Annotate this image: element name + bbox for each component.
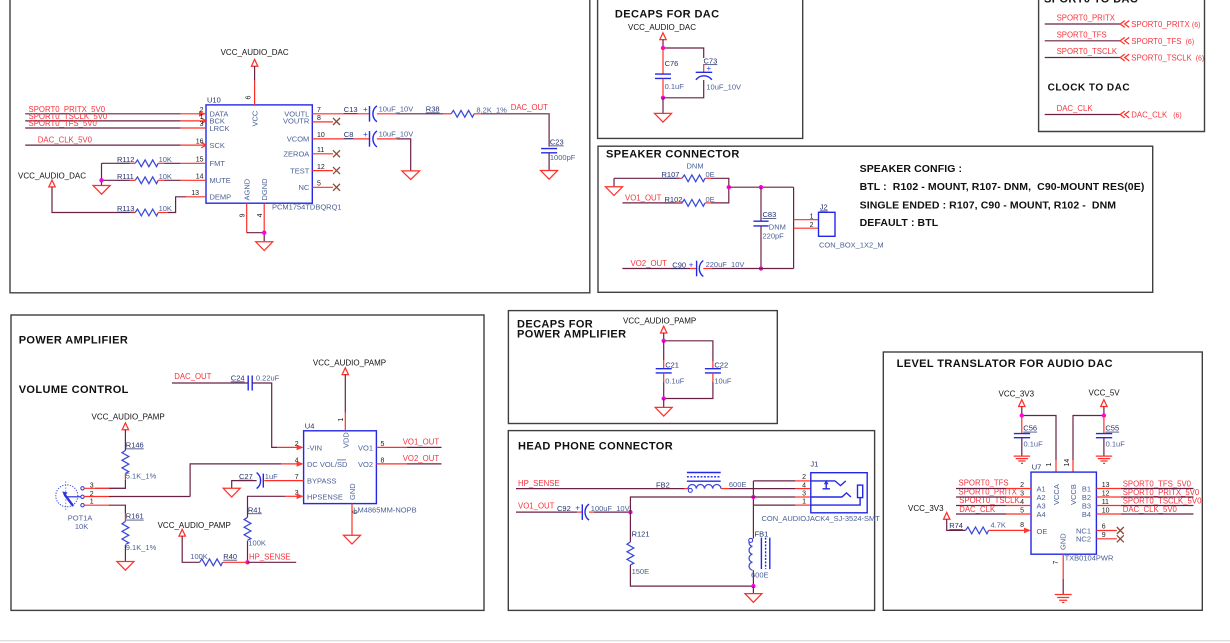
svg-text:J1: J1 [810, 460, 818, 469]
svg-text:MUTE: MUTE [210, 176, 231, 185]
svg-text:C90: C90 [672, 260, 686, 269]
svg-text:4: 4 [802, 482, 806, 489]
svg-text:2: 2 [802, 474, 806, 481]
svg-text:TXB0104PWR: TXB0104PWR [1065, 554, 1114, 563]
svg-text:600E: 600E [751, 571, 769, 580]
svg-text:C8: C8 [344, 130, 354, 139]
svg-text:5: 5 [317, 181, 321, 188]
svg-text:6: 6 [246, 96, 253, 100]
svg-text:10: 10 [1102, 508, 1110, 515]
svg-text:R121: R121 [632, 530, 650, 539]
svg-text:C24: C24 [231, 374, 245, 383]
svg-text:R113: R113 [117, 204, 134, 213]
svg-text:VO2_OUT: VO2_OUT [631, 259, 668, 268]
svg-text:POWER AMPLIFIER: POWER AMPLIFIER [517, 329, 626, 341]
svg-text:(6): (6) [1192, 22, 1201, 29]
svg-text:HPSENSE: HPSENSE [307, 492, 343, 501]
svg-text:R112: R112 [117, 155, 134, 164]
svg-text:-VIN: -VIN [307, 443, 322, 452]
svg-text:+: + [363, 130, 368, 139]
svg-text:10K: 10K [75, 522, 88, 531]
svg-text:C22: C22 [714, 360, 728, 369]
svg-text:OE: OE [1037, 527, 1048, 536]
svg-text:HP_SENSE: HP_SENSE [518, 479, 560, 488]
svg-text:SPORT0_PRITX: SPORT0_PRITX [1131, 20, 1190, 29]
svg-text:100K: 100K [248, 538, 266, 547]
svg-text:FB2: FB2 [656, 481, 670, 490]
svg-text:1: 1 [802, 498, 806, 505]
svg-text:R38: R38 [426, 105, 440, 114]
svg-text:10K: 10K [159, 155, 172, 164]
svg-text:6: 6 [1102, 524, 1106, 531]
svg-text:VCC_3V3: VCC_3V3 [999, 390, 1035, 399]
svg-text:R102: R102 [665, 195, 683, 204]
svg-text:4.7K: 4.7K [991, 521, 1006, 530]
svg-text:LRCK: LRCK [210, 124, 230, 133]
svg-text:J2: J2 [820, 203, 828, 212]
svg-text:VCC_AUDIO_PAMP: VCC_AUDIO_PAMP [313, 359, 386, 368]
svg-text:VCC_3V3: VCC_3V3 [908, 504, 944, 513]
svg-text:9: 9 [240, 213, 247, 217]
svg-text:0E: 0E [706, 170, 715, 179]
svg-text:R146: R146 [126, 441, 144, 450]
svg-text:8: 8 [317, 115, 321, 122]
svg-text:0.22uF: 0.22uF [256, 374, 280, 383]
svg-text:VCC_AUDIO_PAMP: VCC_AUDIO_PAMP [623, 317, 696, 326]
svg-text:2: 2 [200, 107, 204, 114]
svg-text:CON_AUDIOJACK4_SJ-3524-SMT: CON_AUDIOJACK4_SJ-3524-SMT [762, 514, 881, 523]
svg-text:DAC_OUT: DAC_OUT [511, 103, 548, 112]
svg-text:C55: C55 [1105, 424, 1119, 433]
svg-text:+: + [575, 504, 580, 513]
svg-text:R40: R40 [223, 552, 237, 561]
svg-text:DNM: DNM [769, 223, 786, 232]
svg-text:10uF_10V: 10uF_10V [706, 83, 741, 92]
svg-text:5.1K_1%: 5.1K_1% [126, 471, 157, 480]
svg-text:U10: U10 [207, 96, 221, 105]
svg-text:1: 1 [338, 418, 345, 422]
svg-text:SPEAKER CONFIG :: SPEAKER CONFIG : [860, 163, 963, 175]
svg-text:GND: GND [1059, 533, 1068, 550]
svg-text:R107: R107 [662, 170, 680, 179]
svg-text:CON_BOX_1X2_M: CON_BOX_1X2_M [819, 241, 884, 250]
svg-text:10K: 10K [159, 204, 172, 213]
svg-text:VO2_OUT: VO2_OUT [403, 454, 440, 463]
svg-text:LEVEL TRANSLATOR FOR AUDIO DAC: LEVEL TRANSLATOR FOR AUDIO DAC [897, 358, 1113, 370]
svg-text:B4: B4 [1082, 510, 1091, 519]
svg-text:0.1uF: 0.1uF [665, 82, 685, 91]
svg-text:4: 4 [1020, 499, 1024, 506]
svg-text:HP_SENSE: HP_SENSE [249, 552, 291, 561]
svg-text:VCC: VCC [250, 110, 259, 126]
svg-text:VCC_AUDIO_PAMP: VCC_AUDIO_PAMP [158, 521, 231, 530]
svg-text:TEST: TEST [290, 166, 310, 175]
svg-text:C13: C13 [344, 105, 358, 114]
svg-text:FMT: FMT [210, 159, 226, 168]
svg-text:DC VOL/SD: DC VOL/SD [307, 460, 348, 469]
svg-text:150E: 150E [632, 567, 650, 576]
svg-text:SPEAKER CONNECTOR: SPEAKER CONNECTOR [606, 148, 740, 160]
svg-text:14: 14 [1064, 459, 1071, 467]
svg-text:4: 4 [257, 213, 264, 217]
svg-text:VO2: VO2 [358, 460, 373, 469]
svg-text:+: + [689, 260, 694, 269]
svg-text:U4: U4 [305, 422, 315, 431]
svg-text:3: 3 [1020, 491, 1024, 498]
svg-text:FB1: FB1 [755, 530, 769, 539]
svg-text:100K: 100K [190, 552, 208, 561]
svg-text:0.1uF: 0.1uF [1106, 440, 1126, 449]
svg-text:9: 9 [1102, 532, 1106, 539]
svg-text:PCM1754TDBQRQ1: PCM1754TDBQRQ1 [272, 202, 342, 211]
svg-text:POWER AMPLIFIER: POWER AMPLIFIER [19, 335, 128, 347]
svg-text:7: 7 [317, 107, 321, 114]
svg-text:DNM: DNM [687, 161, 704, 170]
svg-text:1: 1 [810, 214, 814, 221]
svg-text:8: 8 [1020, 522, 1024, 529]
svg-text:VOLUME CONTROL: VOLUME CONTROL [19, 384, 129, 396]
svg-text:15: 15 [196, 157, 204, 164]
svg-text:NC: NC [298, 183, 309, 192]
svg-text:C56: C56 [1023, 424, 1037, 433]
svg-text:(6): (6) [1173, 113, 1182, 120]
svg-text:SCK: SCK [210, 141, 225, 150]
svg-text:1: 1 [90, 499, 94, 506]
svg-text:DAC_CLK: DAC_CLK [1131, 111, 1168, 120]
svg-text:13: 13 [1102, 482, 1110, 489]
svg-text:10uF_10V: 10uF_10V [379, 105, 414, 114]
svg-text:2: 2 [810, 222, 814, 229]
svg-text:16: 16 [196, 138, 204, 145]
svg-text:10uF: 10uF [714, 377, 732, 386]
svg-text:C23: C23 [550, 138, 564, 147]
svg-text:0.1uF: 0.1uF [665, 377, 685, 386]
svg-text:5: 5 [381, 441, 385, 448]
svg-text:DAC_CLK: DAC_CLK [1057, 104, 1094, 113]
svg-text:VO1_OUT: VO1_OUT [403, 438, 440, 447]
svg-text:VO1: VO1 [358, 443, 373, 452]
svg-text:SPORT0_TFS: SPORT0_TFS [959, 479, 1009, 488]
svg-text:C92: C92 [557, 504, 571, 513]
svg-text:12: 12 [317, 164, 325, 171]
svg-text:SPORT0 TO DAC: SPORT0 TO DAC [1044, 0, 1138, 6]
svg-text:VCCB: VCCB [1069, 484, 1078, 505]
svg-text:VCC_AUDIO_DAC: VCC_AUDIO_DAC [628, 23, 696, 32]
svg-text:HEAD PHONE CONNECTOR: HEAD PHONE CONNECTOR [518, 441, 673, 453]
svg-text:DAC_CLK_5V0: DAC_CLK_5V0 [38, 135, 93, 144]
svg-text:LM4865MM-NOPB: LM4865MM-NOPB [353, 506, 416, 515]
svg-text:C27: C27 [239, 472, 253, 481]
svg-text:220uF_10V: 220uF_10V [706, 260, 745, 269]
svg-text:8.2K_1%: 8.2K_1% [476, 105, 507, 114]
svg-text:SPORT0_TSCLK: SPORT0_TSCLK [1057, 47, 1118, 56]
svg-text:BTL : R102 - MOUNT, R107- DNM: BTL : R102 - MOUNT, R107- DNM, C90-MOUNT… [860, 181, 1145, 193]
svg-text:(6): (6) [1196, 56, 1205, 63]
svg-text:10K: 10K [159, 172, 172, 181]
svg-text:DEFAULT : BTL: DEFAULT : BTL [860, 217, 939, 229]
svg-text:14: 14 [196, 174, 204, 181]
svg-text:0.1uF: 0.1uF [1024, 440, 1044, 449]
svg-text:11: 11 [1102, 499, 1109, 506]
svg-text:1000pF: 1000pF [550, 153, 576, 162]
svg-text:10uF_10V: 10uF_10V [379, 130, 414, 139]
svg-text:BYPASS: BYPASS [307, 476, 336, 485]
svg-text:12: 12 [1102, 491, 1110, 498]
svg-text:NC2: NC2 [1076, 535, 1091, 544]
svg-text:(6): (6) [1186, 39, 1195, 46]
svg-text:R41: R41 [248, 505, 262, 514]
svg-text:VCOM: VCOM [287, 135, 310, 144]
svg-text:ZEROA: ZEROA [283, 150, 309, 159]
svg-text:CLOCK TO DAC: CLOCK TO DAC [1048, 83, 1130, 94]
svg-text:VCCA: VCCA [1052, 484, 1061, 505]
svg-text:DAC_CLK_5V0: DAC_CLK_5V0 [1123, 505, 1178, 514]
svg-text:7: 7 [295, 474, 299, 481]
svg-text:220pF: 220pF [763, 231, 785, 240]
svg-text:SPORT0_TSCLK: SPORT0_TSCLK [1131, 54, 1192, 63]
svg-text:VOUTR: VOUTR [283, 117, 310, 126]
svg-text:SPORT0_TFS: SPORT0_TFS [1057, 30, 1107, 39]
svg-text:VCC_AUDIO_DAC: VCC_AUDIO_DAC [221, 48, 289, 57]
svg-text:R111: R111 [117, 172, 134, 181]
svg-text:AGND: AGND [243, 178, 252, 200]
svg-text:GND: GND [348, 483, 357, 500]
svg-text:C83: C83 [763, 210, 777, 219]
svg-text:DAC_OUT: DAC_OUT [174, 372, 211, 381]
svg-text:3: 3 [802, 490, 806, 497]
svg-text:1uF: 1uF [265, 472, 278, 481]
svg-text:R161: R161 [126, 512, 144, 521]
svg-text:A4: A4 [1037, 510, 1046, 519]
svg-text:1: 1 [1046, 463, 1053, 467]
svg-text:+: + [707, 64, 712, 73]
svg-text:SPORT0_PRITX: SPORT0_PRITX [1057, 13, 1116, 22]
svg-text:SPORT0_TFS_5V0: SPORT0_TFS_5V0 [29, 119, 98, 128]
svg-text:VO1_OUT: VO1_OUT [625, 193, 662, 202]
svg-text:VCC_AUDIO_PAMP: VCC_AUDIO_PAMP [92, 413, 165, 422]
svg-text:3: 3 [200, 121, 204, 128]
svg-text:C76: C76 [665, 59, 679, 68]
svg-text:C21: C21 [665, 360, 679, 369]
svg-text:VCC_5V: VCC_5V [1089, 389, 1121, 398]
svg-text:11: 11 [317, 147, 324, 154]
svg-text:600E: 600E [729, 480, 747, 489]
svg-text:2: 2 [1020, 482, 1024, 489]
svg-text:U7: U7 [1032, 463, 1042, 472]
svg-text:7: 7 [1053, 561, 1060, 565]
svg-text:VO1_OUT: VO1_OUT [518, 502, 555, 511]
svg-text:SPORT0_TFS: SPORT0_TFS [1131, 37, 1181, 46]
svg-text:VDD: VDD [341, 432, 350, 448]
svg-text:5: 5 [1020, 508, 1024, 515]
svg-text:DECAPS FOR DAC: DECAPS FOR DAC [615, 9, 720, 21]
svg-text:2: 2 [295, 441, 299, 448]
svg-text:DEMP: DEMP [210, 193, 232, 202]
svg-text:SINGLE ENDED : R107, C90 - MOU: SINGLE ENDED : R107, C90 - MOUNT, R102 -… [860, 199, 1117, 211]
svg-text:DAC_CLK: DAC_CLK [959, 505, 996, 514]
svg-text:DGND: DGND [260, 178, 269, 201]
svg-text:13: 13 [191, 190, 199, 197]
svg-text:10: 10 [317, 132, 325, 139]
svg-text:+: + [363, 105, 368, 114]
svg-text:1: 1 [200, 114, 204, 121]
svg-text:9.1K_1%: 9.1K_1% [126, 543, 157, 552]
svg-text:R74: R74 [949, 521, 963, 530]
